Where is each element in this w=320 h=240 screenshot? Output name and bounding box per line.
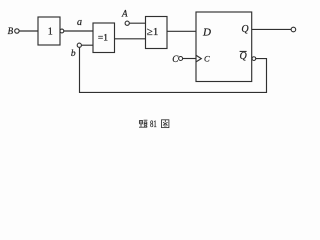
svg-text:C: C	[172, 54, 179, 64]
svg-text:b: b	[71, 49, 76, 59]
svg-text:C: C	[204, 54, 210, 64]
svg-text:A: A	[121, 9, 128, 19]
svg-text:Q: Q	[240, 51, 248, 62]
svg-text:a: a	[77, 17, 82, 28]
svg-text:D: D	[202, 27, 211, 39]
svg-text:≥1: ≥1	[147, 26, 159, 38]
svg-text:81: 81	[150, 119, 157, 129]
svg-text:B: B	[8, 26, 14, 36]
svg-text:1: 1	[48, 26, 53, 37]
svg-text:=1: =1	[98, 34, 108, 44]
svg-text:Q: Q	[241, 24, 249, 35]
